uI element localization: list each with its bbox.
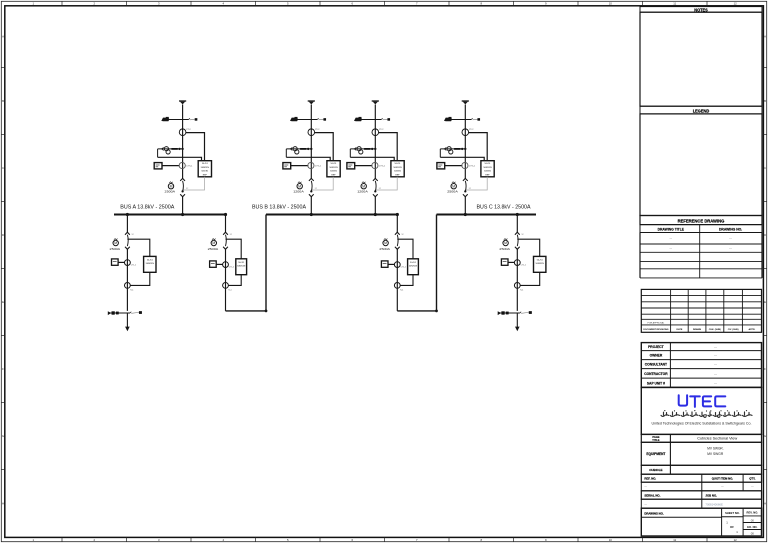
svg-text:JOB NO.: JOB NO. [705,493,717,497]
svg-text:CT%-1: CT%-1 [379,166,386,168]
svg-text:50N/51N: 50N/51N [329,167,338,169]
svg-text:REF. NO.: REF. NO. [644,476,656,480]
CT TIE-AB [223,262,234,269]
svg-text:H: H [2,501,4,505]
svg-text:52: 52 [402,234,404,236]
motor operator M OUT-A1 [110,239,121,251]
svg-text:REF: REF [203,174,208,176]
svg-text:---: --- [644,503,647,506]
cable box / surge arrester branch F2 [290,117,326,121]
svg-text:---: --- [721,486,724,489]
CT F4 [462,162,476,168]
meter box F4 [437,163,445,169]
svg-text:G: G [2,434,4,438]
trip loop wire OUT-C1 [517,239,539,256]
PT fused tap F1 [158,147,184,158]
wire: meter to CT F3 [355,165,373,167]
meter box TIE-AB [210,261,217,267]
trip wire 52 F2 [311,177,333,190]
bus B 13.8kV 2500A [252,205,397,215]
svg-text:50G/81: 50G/81 [484,171,492,173]
svg-text:2500A: 2500A [447,189,458,193]
project info table [641,343,761,388]
meter box OUT-A1 [112,259,119,265]
serial / job row [641,491,761,508]
svg-text:---: --- [670,247,673,250]
node: bus tap TIE-BC [396,213,399,216]
wire: bus drop TIE-BC [396,215,398,233]
protection relay box TIE-AB [236,259,247,275]
svg-text:M: M [298,184,301,188]
protection relay box TIE-BC [408,259,419,275]
protection relay box F2 [327,161,340,177]
svg-text:B: B [2,99,4,103]
relay to CT2 wire OUT-C1 [520,272,540,285]
wire: breaker to CT OUT-A1 [126,249,128,311]
svg-text:CONTRACTOR: CONTRACTOR [644,372,668,376]
wire: bus drop OUT-A1 [126,215,128,233]
svg-text:50-/51: 50-/51 [537,259,544,261]
svg-text:50N/51N: 50N/51N [237,265,246,267]
protection relay box F3 [391,161,404,177]
incoming feeder F1 source stub [179,101,186,104]
CT F3 [372,162,386,168]
protection relay box OUT-C1 [534,256,546,272]
meter box F3 [347,163,355,169]
svg-text:---: --- [714,381,717,385]
svg-text:C: C [2,166,4,170]
svg-text:M: M [170,184,173,188]
svg-text:CT1-1: CT1-1 [401,267,406,269]
svg-text:BUS C 13.8kV - 2500A: BUS C 13.8kV - 2500A [477,205,532,211]
svg-text:50-/51: 50-/51 [147,259,154,261]
bus C 13.8kV 2500A [437,205,537,215]
title panel: NOTES header [640,7,762,13]
svg-text:11: 11 [673,1,676,5]
cubicle row [641,465,761,474]
svg-text:FOR APPROVAL: FOR APPROVAL [648,321,666,324]
svg-text:MV SWGR: MV SWGR [707,452,723,456]
VT metering device F1 [179,129,191,136]
node: bus tap OUT-C1 [516,213,519,216]
motor operator M TIE-AB [208,239,219,251]
wire: bus drop TIE-AB [225,215,227,233]
motor operator M F3 [357,182,368,194]
svg-text:50N/51N: 50N/51N [409,265,418,267]
wire: breaker to CT TIE-AB [225,249,227,311]
svg-text:LEGEND: LEGEND [693,108,710,113]
ref / quot / qty row [641,474,761,491]
circuit breaker 52 F3 (drawout) [373,178,378,196]
equipment row [641,442,761,465]
svg-text:TITLE: TITLE [652,438,659,442]
svg-text:50-/51: 50-/51 [202,163,209,165]
incoming feeder F4 source stub [462,101,469,104]
VT metering device F2 [308,129,320,136]
wire: meter to CT F4 [445,165,463,167]
svg-text:United Technologies Of Electri: United Technologies Of Electric Substati… [652,422,752,426]
svg-text:QTY.: QTY. [749,476,755,480]
node: bus junction F2 [310,213,313,216]
svg-text:M: M [504,241,507,245]
svg-text:---: --- [714,354,717,358]
drawing no / sheet / rev block [641,508,761,536]
svg-text:REF: REF [485,174,490,176]
svg-text:10: 10 [609,1,613,5]
bus A 13.8kV 2500A [114,205,226,215]
svg-text:50G/81: 50G/81 [394,171,402,173]
bus tie run TIE-BC [397,215,438,313]
node: bus tap TIE-AB [224,213,227,216]
svg-text:OF: OF [730,525,734,529]
CT2 OUT-A1 [125,283,134,292]
svg-text:---: --- [670,238,673,241]
VT metering device F4 [462,129,474,136]
svg-text:E: E [764,300,766,304]
wire: meter to CT F1 [162,165,180,167]
CT2 TIE-AB [223,283,232,292]
svg-text:REFERENCE DRAWING: REFERENCE DRAWING [678,219,725,224]
svg-text:50-/51: 50-/51 [485,163,492,165]
node: bus junction F4 [464,213,467,216]
svg-text:50G/81: 50G/81 [201,171,209,173]
svg-text:A: A [764,35,766,39]
svg-text:---: --- [714,345,717,349]
wire: feeder F2 main riser [310,105,312,179]
wire: PT secondary to relay F4 [440,157,484,161]
wire: breaker to CT TIE-BC [396,249,398,311]
motor operator M TIE-BC [379,239,390,251]
CT TIE-BC [394,262,405,269]
svg-text:50-/51: 50-/51 [331,163,338,165]
svg-text:APPR.: APPR. [749,328,756,331]
svg-text:52: 52 [522,234,524,236]
cable termination OUT-C1 [498,311,532,315]
cable box / surge arrester branch F4 [444,117,480,121]
svg-text:50-/51: 50-/51 [410,262,417,264]
svg-text:2500A: 2500A [208,247,219,251]
svg-text:00: 00 [751,518,755,522]
wire: VT F2 to relay [315,133,334,161]
svg-text:G: G [764,434,766,438]
trip loop wire OUT-A1 [127,239,149,256]
svg-text:CT1-1: CT1-1 [131,265,136,267]
PT fused tap F4 [440,147,466,158]
outgoing feeder arrow OUT-A1 [125,313,130,331]
reference drawing table [640,216,762,278]
VT metering device F3 [372,129,384,136]
relay to CT2 wire TIE-BC [400,275,413,286]
svg-text:OWNER: OWNER [650,354,663,358]
svg-text:M: M [384,241,387,245]
svg-text:E: E [2,300,4,304]
svg-text:1200A: 1200A [293,189,304,193]
svg-text:12: 12 [734,538,738,542]
wire: meter to CT F2 [291,165,309,167]
svg-text:---: --- [729,238,732,241]
svg-text:REF: REF [395,174,400,176]
motor operator M F2 [293,182,304,194]
svg-text:EQUIPMENT: EQUIPMENT [646,452,665,456]
svg-text:REV. NO.: REV. NO. [747,511,759,515]
svg-text:50N/51N: 50N/51N [536,263,545,265]
svg-text:---: --- [729,247,732,250]
svg-text:SERIAL NO.: SERIAL NO. [644,493,660,497]
cable box / surge arrester branch F1 [161,117,197,121]
motor operator M F4 [447,182,458,194]
svg-text:2500A: 2500A [499,247,510,251]
svg-text:M: M [362,184,365,188]
trip wire 52 F4 [465,177,487,190]
svg-text:2500A: 2500A [110,247,121,251]
svg-text:DRAWING NO.: DRAWING NO. [719,228,742,232]
svg-text:DRAWING NO.: DRAWING NO. [644,512,663,516]
svg-text:10: 10 [609,538,613,542]
svg-text:50-/51: 50-/51 [238,262,245,264]
wire: VT F3 to relay [379,133,398,161]
svg-text:CT%-1: CT%-1 [469,166,476,168]
wire: feeder F4 main riser [464,105,466,179]
svg-text:CUBICLE: CUBICLE [649,468,662,472]
svg-text:A: A [2,35,4,39]
wire: breaker to CT OUT-C1 [516,249,518,311]
cable termination OUT-A1 [108,311,142,315]
CT F1 [179,162,193,168]
circuit breaker 52 TIE-AB (drawout) [223,232,232,249]
svg-text:1200A: 1200A [357,189,368,193]
protection relay box OUT-A1 [144,256,156,272]
svg-text:D: D [2,233,4,237]
svg-text:PROJECT: PROJECT [648,345,664,349]
svg-text:---: --- [714,363,717,367]
svg-text:Cubicles Sectional View: Cubicles Sectional View [697,437,737,441]
incoming feeder F3 source stub [372,101,379,104]
outgoing feeder arrow OUT-C1 [515,313,520,331]
svg-text:M: M [114,241,117,245]
wire: PT secondary to relay F2 [286,157,330,161]
relay to CT2 wire TIE-AB [228,275,241,286]
svg-text:---: --- [714,372,717,376]
svg-text:DOCUMENT REVISIONS: DOCUMENT REVISIONS [643,329,669,331]
svg-text:50N/51N: 50N/51N [146,263,155,265]
circuit breaker 52 OUT-C1 (drawout) [515,232,524,249]
protection relay box F1 [198,161,211,177]
svg-text:H: H [764,501,766,505]
svg-text:SHEET NO.: SHEET NO. [725,511,740,515]
svg-text:50N/51N: 50N/51N [483,167,492,169]
svg-text:CIV. (SUB): CIV. (SUB) [728,329,739,331]
svg-text:EO. NO.: EO. NO. [747,525,757,529]
svg-text:M: M [212,241,215,245]
notes box [640,12,762,106]
circuit breaker 52 F1 (drawout) [180,178,185,196]
node: bus junction F3 [374,213,377,216]
svg-text:12: 12 [734,1,738,5]
svg-text:---: --- [751,486,754,489]
wire: VT F4 to relay [469,133,488,161]
svg-text:M: M [452,184,455,188]
trip wire 52 F3 [375,177,397,190]
svg-text:50N/51N: 50N/51N [393,167,402,169]
svg-text:%-1: %-1 [228,289,231,291]
svg-text:---: --- [644,486,647,489]
svg-text:MV SWGR.: MV SWGR. [707,446,723,450]
svg-text:2500A: 2500A [379,247,390,251]
bus tie run TIE-AB [226,215,268,313]
svg-text:DRAWN: DRAWN [693,328,702,331]
circuit breaker 52 TIE-BC (drawout) [395,232,404,249]
relay to CT2 wire OUT-A1 [130,272,150,285]
CT F2 [308,162,322,168]
circuit breaker 52 F2 (drawout) [309,178,314,196]
circuit breaker 52 OUT-A1 (drawout) [125,232,134,249]
wire: meter to CT TIE-AB [216,263,223,265]
svg-text:CT%-1: CT%-1 [186,166,193,168]
CT2 OUT-C1 [514,283,523,292]
circuit breaker 52 F4 (drawout) [463,178,468,196]
svg-text:52: 52 [230,234,232,236]
svg-text:CONSULTANT: CONSULTANT [645,363,667,367]
svg-text:%-1: %-1 [400,289,403,291]
CT2 TIE-BC [394,283,403,292]
incoming feeder F2 source stub [308,101,315,104]
wire: VT F1 to relay [186,133,205,161]
PT fused tap F2 [286,147,312,158]
svg-text:BUS A 13.8kV - 2500A: BUS A 13.8kV - 2500A [120,205,175,211]
svg-text:BUS B 13.8kV - 2500A: BUS B 13.8kV - 2500A [252,205,307,211]
svg-text:C: C [764,166,766,170]
wire: PT secondary to relay F1 [158,157,202,161]
svg-text:52: 52 [132,234,134,236]
svg-text:REF: REF [331,174,336,176]
cable box / surge arrester branch F3 [354,117,390,121]
svg-text:CT1-1: CT1-1 [521,265,526,267]
revision table [641,289,761,332]
svg-text:CT%-1: CT%-1 [315,166,322,168]
svg-text:11: 11 [673,538,676,542]
company logo block [641,387,761,434]
wire: feeder F3 main riser [374,105,376,179]
meter box F2 [283,163,291,169]
svg-text:QUOT ITEM NO.: QUOT ITEM NO. [712,476,734,480]
trip loop wire TIE-AB [226,239,242,259]
svg-text:%-1: %-1 [130,289,133,291]
motor operator M OUT-C1 [499,239,510,251]
svg-text:D: D [764,233,766,237]
LEGEND header [640,106,762,114]
page title row [641,434,761,474]
wire: feeder F1 main riser [182,105,184,179]
svg-text:CT1-1: CT1-1 [229,267,234,269]
protection relay box F4 [481,161,494,177]
svg-text:50-/51: 50-/51 [395,163,402,165]
svg-text:2500A: 2500A [165,189,176,193]
meter box OUT-C1 [501,259,508,265]
wire: PT secondary to relay F3 [350,157,394,161]
svg-text:%-1: %-1 [520,289,523,291]
svg-text:50N/51N: 50N/51N [201,167,210,169]
meter box F1 [154,163,162,169]
CT OUT-C1 [514,260,525,267]
svg-text:00: 00 [751,532,755,536]
svg-text:50G/81: 50G/81 [330,171,338,173]
PT fused tap F3 [350,147,376,158]
trip loop wire TIE-BC [397,239,413,259]
svg-text:CHK. (SUB): CHK. (SUB) [709,329,721,331]
svg-text:SAP UNIT #: SAP UNIT # [647,381,665,385]
meter box TIE-BC [381,261,388,267]
CT OUT-A1 [125,260,136,267]
trip wire 52 F1 [183,177,205,190]
svg-text:DATE: DATE [677,328,683,331]
company name arabic [661,412,752,417]
node: bus tap OUT-A1 [126,213,129,216]
wire: meter to CT TIE-BC [388,263,395,265]
svg-text:F: F [764,367,766,371]
wire: meter to CT OUT-C1 [508,261,515,263]
svg-text:DRAWING TITLE: DRAWING TITLE [658,228,685,232]
legend box [640,114,762,216]
svg-text:F: F [2,367,4,371]
motor operator M F1 [165,182,176,194]
wire: meter to CT OUT-A1 [118,261,125,263]
node: bus junction F1 [181,213,184,216]
wire: bus drop OUT-C1 [516,215,518,233]
UTEC logo [679,395,726,407]
svg-text:B: B [764,99,766,103]
svg-text:7008140666E: 7008140666E [705,502,723,506]
